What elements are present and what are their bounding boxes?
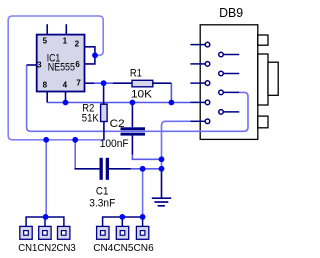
junction node R1 elbow on Vcc line	[169, 100, 175, 106]
svg-text:8: 8	[43, 80, 48, 89]
svg-text:1: 1	[63, 37, 68, 46]
svg-text:C1: C1	[96, 186, 109, 198]
capacitor C2	[100, 118, 145, 150]
svg-text:6: 6	[75, 60, 80, 69]
DB9 pin 9 right	[219, 110, 240, 115]
wire R2 bottom stub to net B end	[103, 122, 105, 140]
svg-text:C2: C2	[110, 118, 125, 130]
junction node CN2 drop on net B	[43, 137, 49, 143]
connector DB9	[200, 5, 278, 140]
junction node CN5 stub	[119, 214, 125, 220]
junction node ground node	[159, 166, 165, 172]
svg-text:NE555: NE555	[48, 62, 75, 74]
wire net A (pin 3 loop to DB9 right pin)	[27, 65, 248, 131]
wire C1 left leg drop from net B	[74, 140, 76, 169]
wire pin 4 stub down	[65, 92, 67, 103]
svg-text:51K: 51K	[82, 113, 100, 125]
DB9 shell tab middle	[258, 54, 268, 105]
wire C1 left horizontal	[75, 168, 100, 170]
wire C1 right to ground node	[131, 168, 162, 170]
junction node C1 leg on net B	[72, 137, 78, 143]
wire R1 left stub	[113, 82, 132, 84]
ground	[152, 198, 172, 206]
wire pin 1 top stub	[65, 24, 67, 34]
svg-text:3: 3	[37, 61, 42, 70]
DB9 pin 5 left	[190, 119, 209, 124]
svg-text:R1: R1	[130, 67, 142, 79]
svg-text:4: 4	[63, 80, 68, 89]
DB9 pin 3 left	[190, 81, 209, 86]
junction node C2 drop on Vcc line	[130, 100, 136, 106]
junction node CN6 drop on C1 line	[140, 166, 146, 172]
svg-text:3.3nF: 3.3nF	[89, 197, 115, 209]
connector CN3	[58, 226, 70, 239]
wire pin7 to R1 net segment	[94, 82, 113, 84]
svg-text:7: 7	[76, 79, 81, 88]
DB9 pin 4 left	[190, 100, 209, 105]
wire Vcc line pins 8/4 to DB9 pin 4	[47, 102, 190, 104]
wire C2 bottom stub	[131, 136, 133, 155]
svg-text:5: 5	[43, 37, 48, 46]
DB9 shell tab bottom	[258, 116, 268, 128]
capacitor C1	[89, 158, 115, 210]
wire CN1-3 header bus	[26, 217, 64, 226]
wire ground drop	[161, 169, 163, 198]
connector CN6	[136, 226, 148, 239]
wire R1 right horizontal	[153, 82, 172, 84]
wire C2 bottom to ground node	[132, 155, 161, 160]
wire pin 2 / pin 6 tie	[85, 47, 95, 64]
wire drop ground node to CN6	[142, 169, 144, 217]
DB9 pin 7 right	[219, 71, 240, 76]
wire net B loop (pins 2/6 to left side down to CN1-3 / C1 / R2 bottom)	[8, 16, 105, 140]
junction node pins2/6 to net B	[92, 52, 98, 58]
junction node C2 bottom meets net C	[159, 156, 165, 162]
DB9 pin 6 right	[219, 52, 240, 57]
connector CN4	[97, 226, 109, 239]
svg-text:10K: 10K	[131, 89, 153, 101]
wire R1 right elbow down to Vcc line	[170, 83, 172, 102]
wire CN4-6 header bus	[103, 217, 143, 226]
DB9 pin 2 left	[190, 62, 209, 67]
junction node CN6 stub	[140, 214, 146, 220]
svg-text:100nF: 100nF	[100, 138, 129, 150]
svg-text:CN4CN5CN6: CN4CN5CN6	[93, 242, 154, 254]
wire net B drop to CN2 junction	[45, 140, 47, 217]
wire pin7 stub	[85, 82, 95, 84]
wire net C (DB9 left pin 5 down to ground node)	[162, 121, 191, 169]
resistor R1	[130, 67, 153, 100]
wire C2 top drop from Vcc line	[131, 103, 133, 128]
DB9 pin 1 left	[190, 42, 209, 47]
connector CN2	[39, 226, 51, 239]
junction node pin7/R1/R2	[101, 80, 107, 86]
junction node pin4 on Vcc line	[63, 100, 69, 106]
resistor R2	[82, 103, 107, 125]
DB9 pin 8 right	[219, 90, 240, 95]
svg-text:DB9: DB9	[219, 5, 243, 20]
svg-text:2: 2	[75, 40, 80, 49]
connector CN1	[20, 226, 32, 239]
wire pin 8 stub down	[46, 92, 48, 103]
wire pin 3 stub	[27, 64, 37, 66]
IC U1: timer IC1 NE555	[37, 35, 85, 92]
wire pin 5 top stub	[46, 24, 48, 34]
junction node CN2 stub	[43, 214, 49, 220]
wire C1 right stub	[109, 168, 131, 170]
connector CN5	[116, 226, 128, 239]
wire pin7 junction down to R2 top	[103, 83, 105, 104]
DB9 shell tab top	[258, 35, 268, 45]
svg-text:CN1CN2CN3: CN1CN2CN3	[18, 242, 76, 254]
